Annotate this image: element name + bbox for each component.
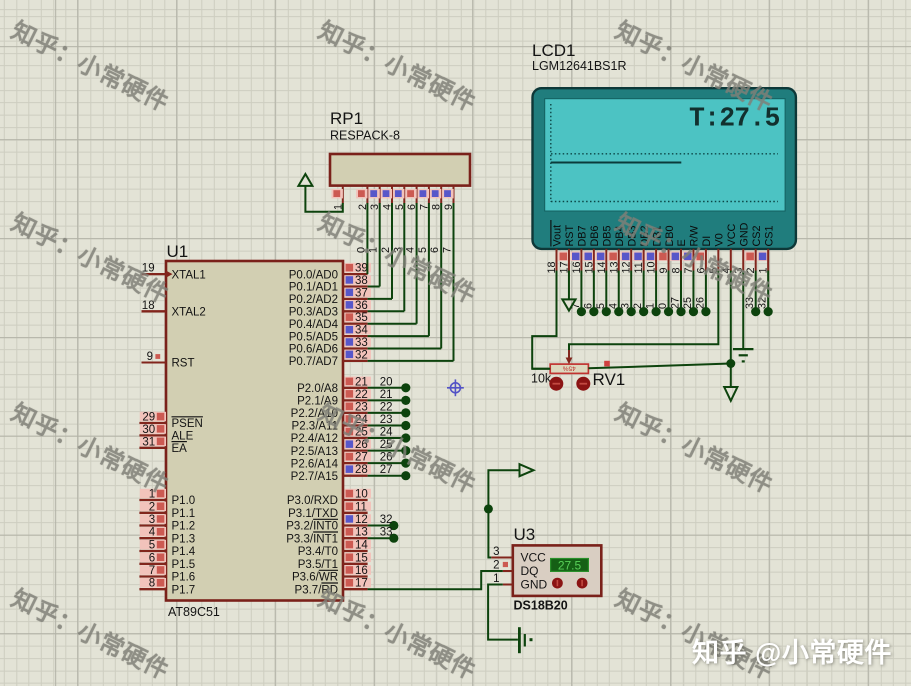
svg-text:P3.3/INT1: P3.3/INT1 <box>286 533 338 545</box>
svg-text:P3.2/INT0: P3.2/INT0 <box>286 521 338 533</box>
net label 2 <box>632 303 644 309</box>
net label 33 <box>380 527 393 539</box>
U1 pin 24 P2.3/A11 <box>292 414 371 433</box>
U1 pin 17 P3.7/RD <box>295 578 371 597</box>
net label 6 <box>429 247 441 253</box>
net label 0 <box>657 303 669 309</box>
power arrow right at U3 VCC <box>520 464 534 476</box>
wire net 0: RP1 pin 2 to U1 P0.0 <box>366 203 368 274</box>
svg-text:P0.6/AD6: P0.6/AD6 <box>289 344 338 356</box>
net label 3 <box>392 247 404 253</box>
svg-text:P1.4: P1.4 <box>172 546 196 558</box>
svg-text:P0.0/AD0: P0.0/AD0 <box>289 269 338 281</box>
U1 pin 37 P0.2/AD2 <box>289 287 371 306</box>
svg-text:36: 36 <box>355 300 368 312</box>
LCD1 pin 15 DB6 <box>583 225 601 273</box>
svg-text:RV1: RV1 <box>593 370 626 389</box>
svg-text:5: 5 <box>417 247 429 253</box>
U1 pin 31 EA <box>139 436 187 455</box>
net label 25 <box>682 297 694 309</box>
U3 temperature display 27.5 <box>551 558 589 572</box>
svg-text:P0.1/AD1: P0.1/AD1 <box>289 282 338 294</box>
wire net 25 at U1 P2.5 <box>368 446 411 455</box>
svg-text:P2.0/A8: P2.0/A8 <box>297 383 338 395</box>
wire net 22 at U1 P2.2 <box>368 408 411 417</box>
svg-text:10k: 10k <box>531 372 552 386</box>
U1 pin 7 P1.6 <box>139 565 195 584</box>
svg-text:P0.2/AD2: P0.2/AD2 <box>289 294 338 306</box>
U1 pin 8 P1.7 <box>139 578 195 597</box>
svg-text:P1.6: P1.6 <box>172 572 196 584</box>
svg-text:28: 28 <box>355 464 368 476</box>
RP1 pin 9 <box>442 186 455 210</box>
RP1 pin 5 <box>393 186 406 210</box>
svg-text:12: 12 <box>355 514 368 526</box>
RP1 pin 7 <box>418 186 431 210</box>
RP1 pin 1 <box>332 186 345 210</box>
svg-text:LGM12641BS1R: LGM12641BS1R <box>532 59 627 73</box>
LCD1 pin 8 E <box>670 239 688 273</box>
U1 pin 9 RST <box>142 351 195 370</box>
svg-text:AT89C51: AT89C51 <box>168 605 220 619</box>
wire U3 VCC up to power arrow <box>488 470 519 557</box>
svg-text:27.5: 27.5 <box>558 558 582 572</box>
U1 pin 11 P3.1/TXD <box>288 501 371 520</box>
svg-text:21: 21 <box>355 376 368 388</box>
RP1 pin 6 <box>405 186 418 210</box>
net label 32 <box>757 297 769 309</box>
net label 22 <box>380 401 393 413</box>
net label 25 <box>380 439 393 451</box>
LCD screen <box>545 99 785 211</box>
net label 26 <box>694 297 706 309</box>
svg-text:3: 3 <box>620 303 632 309</box>
svg-text:P0.5/AD5: P0.5/AD5 <box>289 331 338 343</box>
svg-text:7: 7 <box>149 565 155 577</box>
svg-text:45%: 45% <box>562 365 575 372</box>
wire net 27 at U1 P2.7 <box>368 471 411 480</box>
LCD1 pin 4 VCC <box>720 224 738 274</box>
wire net 23 at U1 P2.3 <box>368 421 411 430</box>
wire net 24 at U1 P2.4 <box>368 433 411 442</box>
svg-text:7: 7 <box>442 247 454 253</box>
wire net 32 at U1 P3.2 <box>368 521 399 530</box>
svg-text:38: 38 <box>355 275 368 287</box>
LCD1 pin 14 DB5 <box>596 225 614 273</box>
U1 pin 39 P0.0/AD0 <box>289 263 371 282</box>
wire net 20 at U1 P2.0 <box>368 383 411 392</box>
svg-text:2: 2 <box>149 501 155 513</box>
battery cell symbol <box>519 627 532 653</box>
U1 pin 5 P1.4 <box>139 540 195 559</box>
svg-text:33: 33 <box>380 527 393 539</box>
svg-text:22: 22 <box>355 389 368 401</box>
LCD1 pin 16 DB7 <box>571 225 589 273</box>
U1 pin 23 P2.2/A10 <box>291 401 371 420</box>
RV1 adjust buttons <box>549 377 590 391</box>
svg-text:RST: RST <box>564 225 576 247</box>
svg-text:LCD1: LCD1 <box>532 41 575 60</box>
U1 pin 36 P0.3/AD3 <box>289 300 371 319</box>
net label 33 <box>744 297 756 309</box>
wire net 1: RP1 pin 3 to U1 P0.1 <box>368 203 380 287</box>
LCD1 pin 12 DB3 <box>620 225 638 273</box>
svg-text:27: 27 <box>380 464 393 476</box>
wire net 3: RP1 pin 5 to U1 P0.3 <box>368 203 405 311</box>
svg-text:P1.5: P1.5 <box>172 559 196 571</box>
U1 pin 18 XTAL2 <box>142 300 206 319</box>
svg-text:Vout: Vout <box>552 225 564 247</box>
svg-text:DB7: DB7 <box>577 225 589 246</box>
svg-text:6: 6 <box>582 303 594 309</box>
net label 27 <box>670 297 682 309</box>
U1 pin 6 P1.5 <box>139 552 195 571</box>
svg-text:P0.3/AD3: P0.3/AD3 <box>289 307 338 319</box>
U1 XTAL1 clock arrow <box>166 271 173 278</box>
wire net 5 at LCD pin 14 <box>602 271 611 317</box>
wire net 4 at LCD pin 13 <box>614 271 623 317</box>
net label 1 <box>645 303 657 309</box>
svg-text:39: 39 <box>355 263 368 275</box>
earth ground symbol <box>733 349 754 361</box>
svg-text:1: 1 <box>493 573 499 585</box>
temperature sensor U3 DS18B20 body <box>513 525 602 613</box>
net label 27 <box>380 464 393 476</box>
svg-text:26: 26 <box>694 297 706 309</box>
wire net 6 at LCD pin 15 <box>589 271 598 317</box>
wire net 3 at LCD pin 12 <box>627 271 636 317</box>
svg-text:RST: RST <box>172 358 195 370</box>
wire net 4: RP1 pin 6 to U1 P0.4 <box>368 203 417 324</box>
svg-text:31: 31 <box>142 436 155 448</box>
svg-text:U3: U3 <box>514 525 536 544</box>
LCD LCD1 LGM12641BS1R body <box>532 41 796 249</box>
svg-text:35: 35 <box>355 312 368 324</box>
U1 pin 30 ALE <box>139 424 193 443</box>
wire LCD Vout pin18 to RV1 left <box>532 271 556 369</box>
svg-text:23: 23 <box>380 414 393 426</box>
U1 pin 12 P3.2/INT0 <box>286 514 371 533</box>
RV1 left lead wire <box>532 368 550 370</box>
U1 pin 35 P0.4/AD4 <box>289 312 371 331</box>
LCD1 pin 9 DB0 <box>658 225 676 273</box>
svg-text:3: 3 <box>149 514 155 526</box>
svg-text:P1.0: P1.0 <box>172 495 196 507</box>
svg-text:P0.4/AD4: P0.4/AD4 <box>289 319 339 331</box>
svg-text:4: 4 <box>149 527 156 539</box>
wire net 27 at LCD pin 8 <box>676 271 685 317</box>
LCD1 pin 10 DB1 <box>645 225 663 273</box>
U1 pin 16 P3.6/WR <box>292 565 371 584</box>
wire net 2: RP1 pin 4 to U1 P0.2 <box>368 203 392 299</box>
svg-text:P3.4/T0: P3.4/T0 <box>298 546 338 558</box>
svg-text:5: 5 <box>595 303 607 309</box>
svg-text:0: 0 <box>657 303 669 309</box>
RP1 pin 2 <box>356 186 369 210</box>
svg-text:XTAL1: XTAL1 <box>172 269 206 281</box>
svg-text:P0.7/AD7: P0.7/AD7 <box>289 356 338 368</box>
origin marker <box>447 379 464 396</box>
svg-text:6: 6 <box>429 247 441 253</box>
wire net 7 at LCD pin 16 <box>577 271 586 317</box>
svg-text:P3.6/WR: P3.6/WR <box>292 572 338 584</box>
U1 pin 38 P0.1/AD1 <box>289 275 371 294</box>
net label 7 <box>442 247 454 253</box>
U1 pin 10 P3.0/RXD <box>287 489 371 508</box>
net label 24 <box>380 427 393 439</box>
svg-text:2: 2 <box>493 560 499 572</box>
svg-text:21: 21 <box>380 389 393 401</box>
U1 pin 28 P2.7/A15 <box>291 464 371 483</box>
net label 32 <box>380 514 393 526</box>
svg-text:3: 3 <box>493 546 499 558</box>
junction node at RV1 right <box>726 359 735 368</box>
LCD screen text T:27.5 <box>689 104 780 134</box>
svg-text:9: 9 <box>147 351 153 363</box>
wire net 21 at U1 P2.1 <box>368 396 411 405</box>
net label 2 <box>380 247 392 253</box>
svg-text:32: 32 <box>380 514 393 526</box>
wire RP1 pin1 to power arrow <box>305 186 342 212</box>
RV1 wiper state square <box>604 361 610 367</box>
wire U3 DQ to U1 P3.7/RD <box>368 571 503 589</box>
U1 pin 3 P1.2 <box>139 514 195 533</box>
wire net 5: RP1 pin 7 to U1 P0.5 <box>368 203 429 336</box>
svg-text:22: 22 <box>380 401 393 413</box>
svg-text:GND: GND <box>521 578 548 592</box>
arrow terminal at LCD RST <box>562 299 575 310</box>
svg-text:V0: V0 <box>714 233 726 246</box>
U3 adjust buttons <box>552 578 587 589</box>
U3 pin 2 DQ <box>493 560 513 572</box>
svg-text:15: 15 <box>355 552 368 564</box>
wire net 26 at LCD pin 6 <box>701 271 710 317</box>
svg-text:DB5: DB5 <box>602 225 614 246</box>
svg-text:RP1: RP1 <box>330 109 363 128</box>
U1 pin 29 PSEN <box>139 412 203 431</box>
net label 26 <box>380 452 393 464</box>
watermark credit bottom right <box>692 631 892 670</box>
wire net 1 at LCD pin 10 <box>652 271 661 317</box>
RV1 wiper arrow <box>566 350 573 364</box>
svg-text:DB6: DB6 <box>589 225 601 246</box>
wire LCD GND pin3 to earth <box>742 271 744 350</box>
U1 pin 15 P3.5/T1 <box>298 552 371 571</box>
net label 4 <box>405 247 417 253</box>
svg-text:P1.3: P1.3 <box>172 533 196 545</box>
svg-text:16: 16 <box>355 565 368 577</box>
LCD1 pin 18 Vout <box>546 220 564 274</box>
svg-text:13: 13 <box>355 527 368 539</box>
wire LCD V0 pin5 to RV1 wiper <box>569 271 718 358</box>
wire net 32 at LCD pin 1 <box>764 271 773 317</box>
junction node on U3 VCC wire <box>484 504 493 513</box>
svg-text:20: 20 <box>380 376 393 388</box>
svg-text:23: 23 <box>355 401 368 413</box>
svg-text:P2.4/A12: P2.4/A12 <box>291 433 338 445</box>
net label 0 <box>355 247 367 253</box>
U1 pin 1 P1.0 <box>139 489 195 508</box>
svg-text:P1.2: P1.2 <box>172 521 196 533</box>
U1 pin 13 P3.3/INT1 <box>286 527 371 546</box>
svg-text:CS1: CS1 <box>763 225 775 246</box>
U1 pin 26 P2.5/A13 <box>291 439 371 458</box>
LCD1 pin 3 GND <box>733 222 751 273</box>
svg-text:34: 34 <box>355 325 368 337</box>
svg-text:37: 37 <box>355 287 368 299</box>
net label 6 <box>582 303 594 309</box>
power arrow at RP1 pin 1 <box>298 174 312 186</box>
svg-text:4: 4 <box>607 303 619 309</box>
U1 pin 2 P1.1 <box>139 501 195 520</box>
resistor pack RP1 RESPACK-8 body <box>330 109 470 186</box>
U3 pin 3 VCC <box>491 546 513 558</box>
svg-text:8: 8 <box>149 578 155 590</box>
svg-text:P3.0/RXD: P3.0/RXD <box>287 495 338 507</box>
RP1 pin 4 <box>381 186 394 210</box>
svg-text:U1: U1 <box>167 242 189 261</box>
net label 1 <box>368 247 380 253</box>
svg-text:27: 27 <box>355 452 368 464</box>
svg-text:GND: GND <box>738 222 750 246</box>
wire net 33 at LCD pin 2 <box>751 271 760 317</box>
svg-text:CS2: CS2 <box>751 225 763 246</box>
svg-text:1: 1 <box>645 303 657 309</box>
LCD1 pin 7 R/W <box>683 225 701 274</box>
wire LCD RST pin17 down <box>568 271 570 300</box>
svg-text:10: 10 <box>355 489 368 501</box>
arrow terminal below junction <box>724 387 737 401</box>
svg-text:DI: DI <box>701 236 713 247</box>
svg-text:P3.5/T1: P3.5/T1 <box>298 559 338 571</box>
U1 pin 21 P2.0/A8 <box>297 376 371 395</box>
RP1 pin 3 <box>368 186 381 210</box>
LCD1 pin 2 CS2 <box>745 225 763 273</box>
RP1 pin 8 <box>430 186 443 210</box>
svg-text:32: 32 <box>355 349 368 361</box>
wire net 6: RP1 pin 8 to U1 P0.6 <box>368 203 442 349</box>
LCD1 pin 5 V0 <box>708 233 726 273</box>
wire net 2 at LCD pin 11 <box>639 271 648 317</box>
svg-text:P2.5/A13: P2.5/A13 <box>291 446 338 458</box>
svg-text:VCC: VCC <box>521 551 547 565</box>
svg-text:30: 30 <box>142 424 155 436</box>
svg-text:29: 29 <box>142 412 155 424</box>
LCD1 pin 11 DB2 <box>633 225 651 273</box>
svg-text:DQ: DQ <box>521 564 539 578</box>
svg-text:P1.1: P1.1 <box>172 508 196 520</box>
svg-text:VCC: VCC <box>726 224 738 247</box>
svg-text:11: 11 <box>355 501 367 513</box>
net label 5 <box>595 303 607 309</box>
U1 pin 27 P2.6/A14 <box>291 452 371 471</box>
svg-text:PSEN: PSEN <box>172 418 203 430</box>
wire net 25 at LCD pin 7 <box>689 271 698 317</box>
U3 pin 1 GND <box>493 573 513 585</box>
wire LCD VCC pin4 down to junction <box>730 271 732 388</box>
U1 pin 4 P1.3 <box>139 527 195 546</box>
svg-text:27: 27 <box>670 297 682 309</box>
svg-text:33: 33 <box>355 337 368 349</box>
svg-text:P3.1/TXD: P3.1/TXD <box>288 508 338 520</box>
LCD1 pin 1 CS1 <box>757 225 775 273</box>
wire net 33 at U1 P3.3 <box>368 534 399 543</box>
net label 20 <box>380 376 393 388</box>
net label 3 <box>620 303 632 309</box>
U1 pin 32 P0.7/AD7 <box>289 349 371 368</box>
microcontroller U1 AT89C51 body <box>166 242 343 619</box>
svg-text:17: 17 <box>355 578 368 590</box>
LCD1 pin 6 DI <box>695 236 713 274</box>
svg-text:14: 14 <box>355 540 368 552</box>
svg-text:EA: EA <box>172 443 188 455</box>
svg-text:ALE: ALE <box>172 431 194 443</box>
U1 pin 25 P2.4/A12 <box>291 427 371 446</box>
U1 pin 19 XTAL1 <box>142 263 206 282</box>
net label 21 <box>380 389 393 401</box>
net label 4 <box>607 303 619 309</box>
U1 pin 33 P0.6/AD6 <box>289 337 371 356</box>
U1 pin 14 P3.4/T0 <box>298 540 371 559</box>
svg-text:25: 25 <box>682 297 694 309</box>
svg-text:2: 2 <box>632 303 644 309</box>
svg-text:P2.6/A14: P2.6/A14 <box>291 458 339 470</box>
U1 pin 22 P2.1/A9 <box>297 389 371 408</box>
svg-text:P1.7: P1.7 <box>172 584 196 596</box>
svg-text:5: 5 <box>149 540 155 552</box>
LCD1 pin 13 DB4 <box>608 225 626 273</box>
wire U3 GND to battery terminal <box>488 585 518 640</box>
wire net 0 at LCD pin 9 <box>664 271 673 317</box>
net label 7 <box>570 303 582 309</box>
net label 5 <box>417 247 429 253</box>
svg-text:P2.7/A15: P2.7/A15 <box>291 471 338 483</box>
svg-text:XTAL2: XTAL2 <box>172 307 206 319</box>
U1 pin 34 P0.5/AD5 <box>289 325 371 344</box>
svg-text:DS18B20: DS18B20 <box>514 599 568 613</box>
potentiometer RV1 10k body <box>531 364 625 389</box>
wire net 7: RP1 pin 9 to U1 P0.7 <box>368 203 454 361</box>
svg-text:6: 6 <box>149 552 155 564</box>
net label 23 <box>380 414 393 426</box>
RV1 right lead wire to junction <box>588 364 730 369</box>
LCD1 pin 17 RST <box>558 225 576 274</box>
svg-text:RESPACK-8: RESPACK-8 <box>330 129 400 143</box>
wire net 26 at U1 P2.6 <box>368 459 411 468</box>
